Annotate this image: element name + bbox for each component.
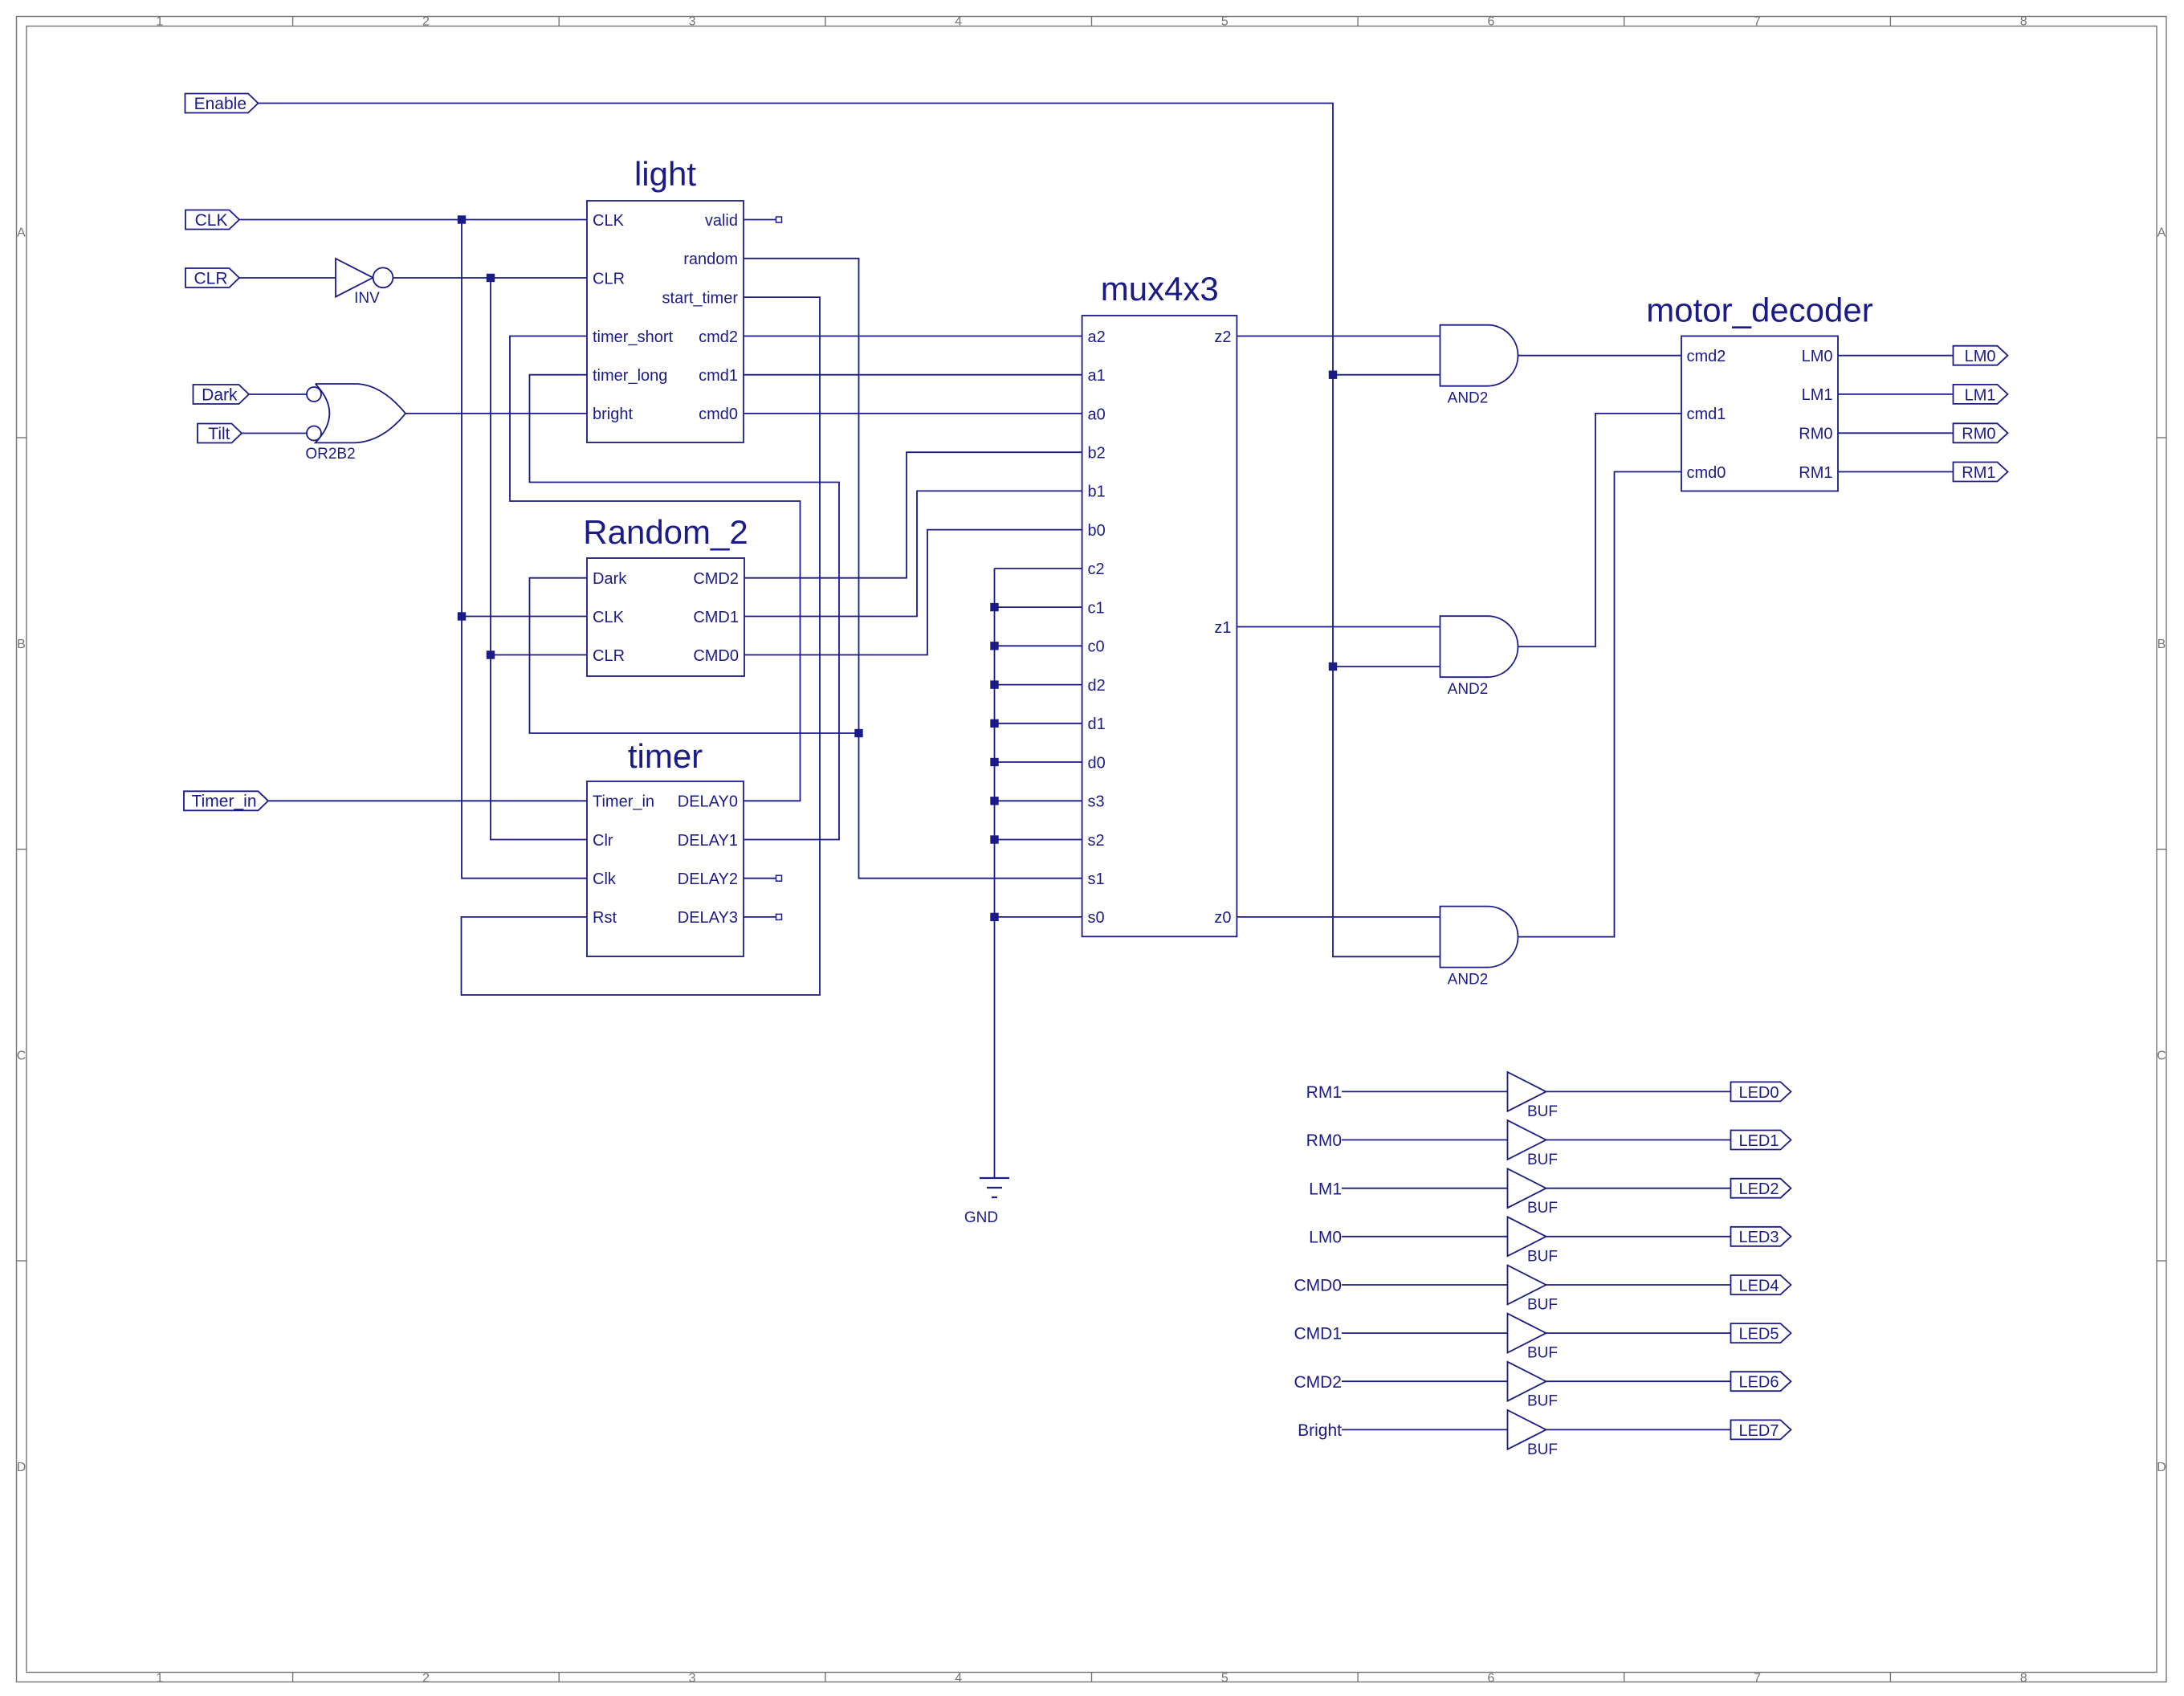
junction random branch (854, 729, 862, 737)
svg-text:INV: INV (354, 290, 380, 307)
wire Dark to OR2B2 (250, 393, 308, 395)
input port Enable (185, 94, 259, 113)
block motor_decoder box (1681, 336, 1838, 491)
svg-text:BUF: BUF (1527, 1152, 1558, 1168)
wire LM1 to BUF (1342, 1188, 1508, 1189)
svg-text:valid: valid (705, 212, 738, 230)
wire RM1 to port (1838, 471, 1954, 473)
svg-text:DELAY0: DELAY0 (678, 793, 738, 811)
buffer BUF LED3 (1508, 1217, 1546, 1256)
svg-text:CLK: CLK (593, 212, 625, 230)
svg-text:Clr: Clr (593, 832, 613, 850)
wire cmd2 to a2 (744, 336, 1082, 337)
svg-text:LM0: LM0 (1965, 348, 1996, 365)
svg-text:RM0: RM0 (1306, 1131, 1342, 1150)
block mux4x3 box (1082, 316, 1237, 936)
svg-text:LED5: LED5 (1738, 1326, 1779, 1343)
buffer BUF LED2 (1508, 1168, 1546, 1208)
buffer BUF LED5 (1508, 1314, 1546, 1353)
svg-text:light: light (634, 155, 696, 193)
svg-text:6: 6 (1487, 15, 1494, 29)
buffer BUF LED1 (1508, 1120, 1546, 1160)
wire BUF to LED5 (1546, 1332, 1731, 1334)
and-gate AND2 #3 (1440, 907, 1518, 968)
svg-text:CLR: CLR (593, 270, 625, 287)
svg-text:c1: c1 (1088, 599, 1105, 617)
svg-text:b0: b0 (1088, 522, 1106, 540)
svg-text:b1: b1 (1088, 483, 1106, 501)
wire AND3 to cmd0 (1518, 472, 1682, 937)
svg-text:a1: a1 (1088, 367, 1106, 385)
svg-text:a0: a0 (1088, 406, 1106, 423)
svg-text:s1: s1 (1088, 870, 1105, 888)
svg-text:BUF: BUF (1527, 1297, 1558, 1314)
svg-text:s0: s0 (1088, 909, 1105, 927)
wire AND1 lower input (1333, 374, 1440, 376)
svg-text:cmd1: cmd1 (699, 367, 738, 385)
svg-text:BUF: BUF (1527, 1103, 1558, 1120)
svg-text:A: A (2158, 226, 2166, 240)
svg-text:GND: GND (964, 1209, 998, 1226)
wire Timer_in port to timer (269, 800, 588, 801)
wire BUF to LED7 (1546, 1429, 1731, 1430)
wire CMD1 to BUF (1342, 1332, 1508, 1334)
svg-text:AND2: AND2 (1448, 390, 1489, 407)
wire CMD0 to BUF (1342, 1284, 1508, 1286)
svg-text:RM1: RM1 (1799, 464, 1832, 482)
svg-text:z1: z1 (1214, 619, 1231, 637)
svg-text:cmd1: cmd1 (1687, 406, 1726, 423)
wire z0 to AND3 (1237, 916, 1440, 918)
svg-text:7: 7 (1754, 1671, 1761, 1685)
junction CLK Random_2 (458, 612, 466, 620)
svg-text:d1: d1 (1088, 715, 1106, 733)
svg-text:OR2B2: OR2B2 (305, 446, 355, 463)
wire OR2B2 output to light bright (405, 413, 587, 414)
wire random branch to Random_2 Dark (530, 578, 859, 733)
wire GND rail (994, 569, 996, 1178)
svg-text:C: C (2157, 1050, 2166, 1063)
junction CLR main (487, 274, 495, 282)
wire CMD2 to b2 (744, 452, 1082, 578)
svg-text:timer_short: timer_short (593, 328, 673, 346)
svg-text:D: D (17, 1461, 26, 1474)
svg-text:a2: a2 (1088, 328, 1106, 346)
svg-text:Random_2: Random_2 (583, 513, 748, 551)
wire timer_short from DELAY0 (510, 336, 801, 801)
svg-text:Dark: Dark (202, 385, 238, 404)
svg-text:6: 6 (1487, 1671, 1494, 1685)
wire valid stub (744, 219, 776, 221)
svg-text:CMD0: CMD0 (1294, 1277, 1342, 1295)
svg-text:timer: timer (628, 737, 703, 775)
svg-text:Dark: Dark (593, 570, 627, 588)
svg-text:7: 7 (1754, 15, 1761, 29)
svg-text:Bright: Bright (1298, 1421, 1342, 1440)
svg-text:LED2: LED2 (1738, 1180, 1779, 1198)
svg-text:LM1: LM1 (1802, 386, 1833, 404)
junction Enable-AND1 (1329, 371, 1337, 379)
wire CLR vertical branch (491, 278, 587, 840)
wire cmd0 to a0 (744, 413, 1082, 414)
svg-text:CLR: CLR (593, 647, 625, 665)
svg-text:Clk: Clk (593, 870, 617, 888)
svg-text:LED3: LED3 (1738, 1229, 1779, 1246)
svg-text:s3: s3 (1088, 793, 1105, 811)
wire BUF to LED2 (1546, 1188, 1731, 1189)
wire z2 to AND1 (1237, 336, 1440, 337)
wire LM0 to BUF (1342, 1236, 1508, 1237)
output port LED0 (1731, 1082, 1791, 1101)
svg-text:random: random (683, 251, 738, 268)
svg-text:LED6: LED6 (1738, 1374, 1779, 1392)
svg-text:D: D (2157, 1461, 2166, 1474)
svg-text:b2: b2 (1088, 445, 1106, 463)
svg-text:mux4x3: mux4x3 (1101, 270, 1219, 308)
svg-text:Tilt: Tilt (208, 425, 230, 443)
svg-text:Timer_in: Timer_in (192, 793, 257, 811)
wire DELAY3 stub (744, 916, 776, 918)
svg-text:B: B (2158, 638, 2166, 651)
svg-text:cmd0: cmd0 (699, 406, 738, 423)
svg-text:4: 4 (955, 1671, 962, 1685)
wire rail to c2 (995, 568, 1083, 569)
output port LED2 (1731, 1179, 1791, 1198)
wire AND2 lower input (1333, 666, 1440, 667)
svg-text:RM0: RM0 (1799, 426, 1832, 443)
svg-text:B: B (17, 638, 26, 651)
svg-text:AND2: AND2 (1448, 681, 1489, 698)
output port RM0 (1954, 423, 2008, 442)
svg-text:BUF: BUF (1527, 1345, 1558, 1362)
output port LED4 (1731, 1275, 1791, 1294)
block timer box (587, 781, 744, 956)
input port Tilt (198, 424, 242, 443)
wire BUF to LED1 (1546, 1139, 1731, 1141)
wire cmd1 to a1 (744, 374, 1082, 376)
svg-text:BUF: BUF (1527, 1200, 1558, 1217)
svg-text:z2: z2 (1214, 328, 1231, 346)
svg-text:1: 1 (156, 1671, 163, 1685)
wire CLR to Random_2 (491, 654, 587, 656)
wire AND1 to cmd2 (1518, 355, 1682, 357)
svg-text:LM0: LM0 (1309, 1228, 1342, 1246)
svg-text:BUF: BUF (1527, 1441, 1558, 1458)
and-gate AND2 #1 (1440, 325, 1518, 386)
junction CLR Random_2 (487, 650, 495, 658)
wire RM0 to BUF (1342, 1139, 1508, 1141)
wire Enable to AND gates (259, 104, 1440, 957)
svg-text:DELAY2: DELAY2 (678, 870, 738, 888)
wire INV output to light CLR (393, 277, 587, 279)
wire CLK vertical branch (462, 220, 587, 879)
wire CLK to Random_2 (462, 616, 587, 618)
svg-text:d0: d0 (1088, 754, 1106, 772)
svg-text:BUF: BUF (1527, 1393, 1558, 1410)
junction Enable-AND2 (1329, 662, 1337, 671)
svg-text:c2: c2 (1088, 561, 1105, 578)
output port LED7 (1731, 1420, 1791, 1439)
svg-text:timer_long: timer_long (593, 367, 667, 385)
svg-text:3: 3 (689, 1671, 696, 1685)
buffer BUF LED0 (1508, 1072, 1546, 1111)
wire timer_long from DELAY1 (530, 375, 840, 840)
svg-text:1: 1 (156, 15, 163, 29)
and-gate AND2 #2 (1440, 616, 1518, 677)
svg-text:LM1: LM1 (1965, 386, 1996, 404)
buffer BUF LED6 (1508, 1362, 1546, 1401)
wire Bright to BUF (1342, 1429, 1508, 1430)
output port LED1 (1731, 1131, 1791, 1150)
inverter INV (336, 259, 373, 297)
svg-text:CMD2: CMD2 (1294, 1373, 1342, 1392)
svg-text:LM1: LM1 (1309, 1180, 1342, 1198)
svg-text:Enable: Enable (194, 95, 247, 113)
wire RM1 to BUF (1342, 1091, 1508, 1092)
svg-text:bright: bright (593, 406, 633, 423)
wire AND2 to cmd1 (1518, 414, 1682, 646)
svg-text:Rst: Rst (593, 909, 617, 927)
svg-text:8: 8 (2020, 1671, 2027, 1685)
svg-text:LM0: LM0 (1802, 348, 1833, 365)
ground GND (980, 1177, 1009, 1179)
output port LED3 (1731, 1227, 1791, 1246)
svg-text:2: 2 (422, 15, 430, 29)
svg-text:DELAY1: DELAY1 (678, 832, 738, 850)
open terminal DELAY3 (776, 914, 782, 919)
or-gate OR2B2 (316, 384, 405, 442)
wire BUF to LED3 (1546, 1236, 1731, 1237)
output port LED6 (1731, 1372, 1791, 1391)
buffer BUF LED7 (1508, 1410, 1546, 1449)
wire RM0 to port (1838, 432, 1954, 434)
border ruler ticks (292, 17, 294, 26)
svg-text:RM1: RM1 (1962, 464, 1995, 482)
svg-text:CLK: CLK (593, 609, 625, 626)
input port CLK (185, 210, 239, 230)
svg-text:5: 5 (1221, 15, 1228, 29)
wire random to mux s1 (744, 259, 1082, 879)
wire z1 to AND2 (1237, 626, 1440, 628)
svg-text:LED0: LED0 (1738, 1084, 1779, 1102)
wire LM0 to port (1838, 355, 1954, 357)
svg-text:z0: z0 (1214, 909, 1231, 927)
svg-text:DELAY3: DELAY3 (678, 909, 738, 927)
svg-text:cmd0: cmd0 (1687, 464, 1726, 482)
input port Timer_in (184, 791, 268, 810)
svg-text:cmd2: cmd2 (699, 328, 738, 346)
wire LM1 to port (1838, 393, 1954, 395)
wire rail branches to mux (995, 606, 1083, 608)
svg-text:2: 2 (422, 1671, 430, 1685)
svg-text:LED4: LED4 (1738, 1277, 1779, 1294)
wire BUF to LED4 (1546, 1284, 1731, 1286)
svg-text:CMD0: CMD0 (693, 647, 739, 665)
wire CMD2 to BUF (1342, 1380, 1508, 1382)
svg-text:LED1: LED1 (1738, 1132, 1779, 1150)
svg-text:cmd2: cmd2 (1687, 348, 1726, 365)
svg-text:start_timer: start_timer (662, 289, 739, 307)
wire CLR to inverter (239, 277, 336, 279)
wire start_timer to timer Rst (462, 297, 821, 995)
svg-text:AND2: AND2 (1448, 972, 1489, 989)
output port LED5 (1731, 1323, 1791, 1343)
svg-text:CLR: CLR (194, 269, 227, 287)
svg-text:Timer_in: Timer_in (593, 793, 654, 811)
input port Dark (194, 385, 250, 404)
svg-text:CMD1: CMD1 (1294, 1325, 1342, 1343)
svg-text:5: 5 (1221, 1671, 1228, 1685)
svg-text:BUF: BUF (1527, 1248, 1558, 1265)
svg-text:3: 3 (689, 15, 696, 29)
svg-text:A: A (17, 226, 26, 240)
svg-text:CLK: CLK (195, 211, 228, 230)
wire BUF to LED0 (1546, 1091, 1731, 1092)
wire Tilt to OR2B2 (241, 433, 307, 434)
buffer BUF LED4 (1508, 1266, 1546, 1305)
output port RM1 (1954, 463, 2008, 482)
svg-text:CMD1: CMD1 (693, 609, 739, 626)
output port LM1 (1954, 385, 2008, 404)
svg-text:LED7: LED7 (1738, 1422, 1779, 1440)
svg-text:8: 8 (2020, 15, 2027, 29)
block Random_2 box (587, 558, 744, 676)
output port LM0 (1954, 346, 2008, 365)
wire DELAY2 stub (744, 878, 776, 879)
svg-text:4: 4 (955, 15, 962, 29)
wire CMD0 to b0 (744, 530, 1082, 655)
svg-text:s2: s2 (1088, 832, 1105, 850)
wire CMD1 to b1 (744, 491, 1082, 616)
wire BUF to LED6 (1546, 1380, 1731, 1382)
svg-text:RM1: RM1 (1306, 1083, 1342, 1102)
svg-text:C: C (17, 1050, 26, 1063)
svg-text:d2: d2 (1088, 677, 1106, 695)
svg-text:CMD2: CMD2 (693, 570, 739, 588)
svg-text:RM0: RM0 (1962, 426, 1995, 443)
svg-text:motor_decoder: motor_decoder (1646, 291, 1873, 329)
svg-text:c0: c0 (1088, 638, 1105, 656)
block light box (587, 201, 744, 442)
junction rail branches (990, 603, 998, 611)
wire CLK to light (239, 219, 587, 221)
junction CLK main (458, 215, 466, 223)
open terminal valid (776, 217, 782, 222)
input port CLR (185, 268, 239, 287)
open terminal DELAY2 (776, 875, 782, 881)
